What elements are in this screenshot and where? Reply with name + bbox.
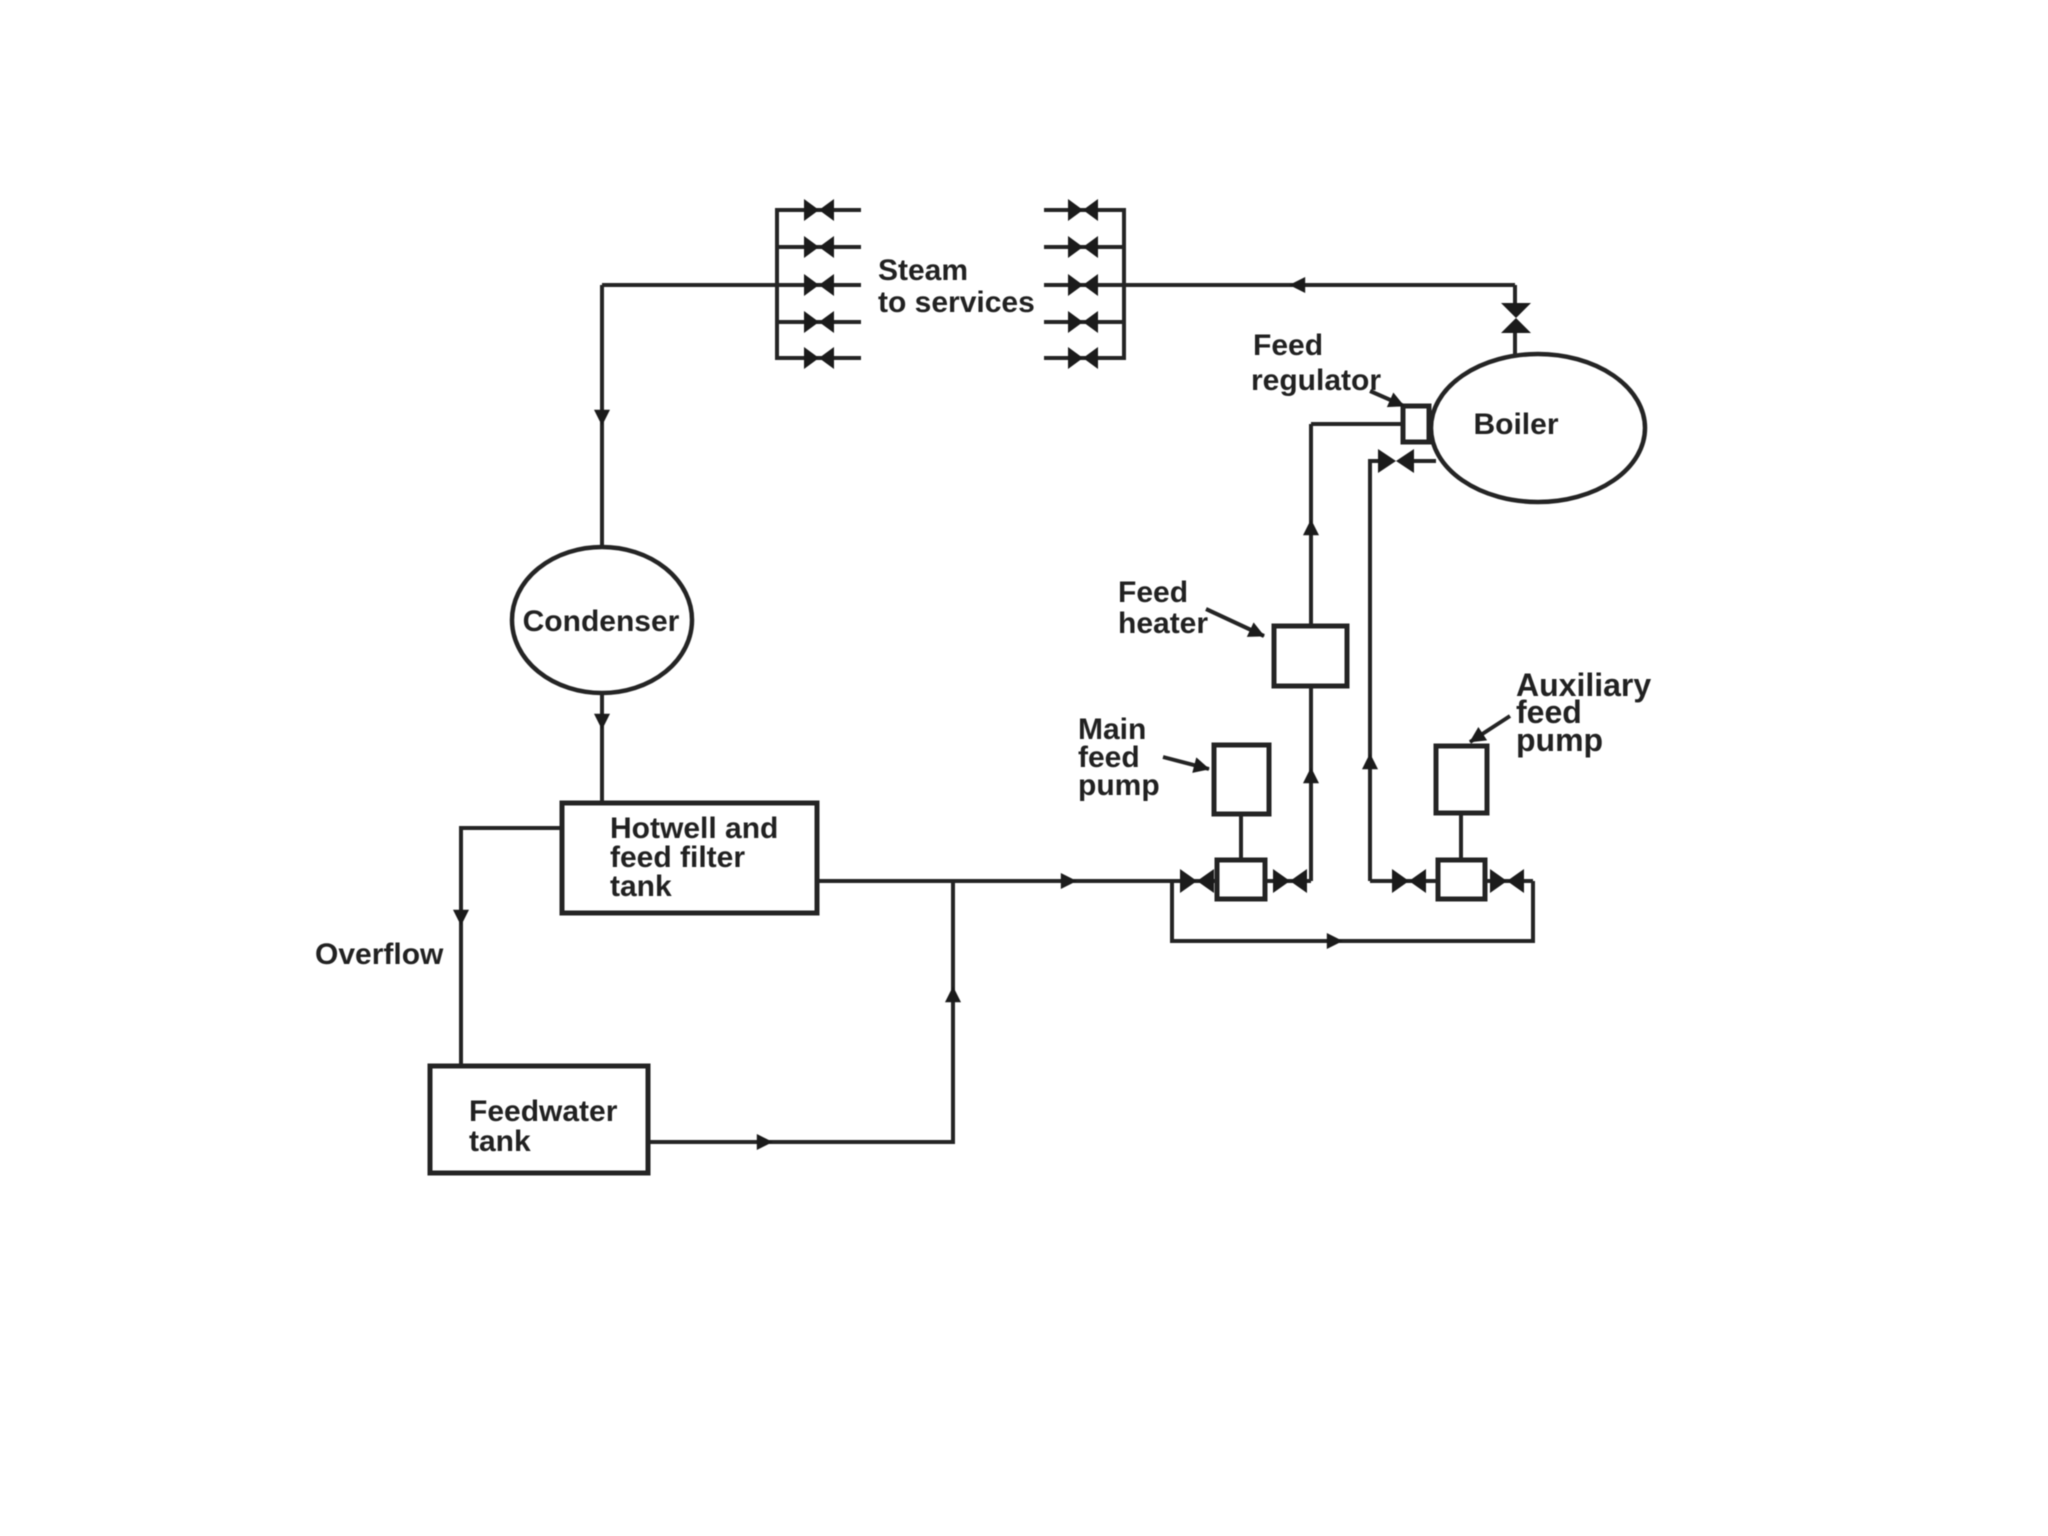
wire: right bank row 2	[1044, 245, 1124, 249]
wire: right bank row 5	[1044, 356, 1124, 360]
wire: left bank row 4	[777, 320, 861, 324]
condenser	[512, 547, 692, 693]
arrow: down into hotwell	[600, 703, 604, 729]
arrow: up below feed heater	[1309, 768, 1313, 794]
arrow: up above feed heater	[1309, 520, 1313, 546]
wire: auxiliary feed riser	[1370, 461, 1380, 881]
boiler stop valve (vertical)	[1501, 303, 1531, 333]
arrow: tank outlet right	[746, 1140, 772, 1144]
svg-text:regulator: regulator	[1251, 364, 1381, 397]
leader arrow: main feed pump label	[1163, 757, 1209, 769]
wire: left bank row 2	[777, 245, 861, 249]
main pump discharge valve	[1273, 869, 1307, 893]
feed regulator box	[1403, 406, 1429, 442]
arrow: steam flow to left	[1290, 283, 1314, 287]
svg-text:Overflow: Overflow	[315, 938, 444, 971]
wire: left bank row 3	[777, 283, 861, 287]
svg-text:Condenser: Condenser	[523, 605, 680, 638]
valve row 3 left bank	[804, 274, 834, 296]
arrow: feed flow right	[1052, 879, 1076, 883]
valve row 3 right bank	[1068, 274, 1098, 296]
main pump suction valve	[1180, 869, 1214, 893]
svg-text:tank: tank	[469, 1125, 531, 1158]
svg-text:tank: tank	[610, 870, 672, 903]
wire: main feed suction line from hotwell	[817, 879, 1311, 883]
wire: right bank row 3	[1044, 283, 1124, 287]
leader arrow: feed regulator label	[1370, 391, 1404, 406]
valve row 4 left bank	[804, 311, 834, 333]
valve row 2 left bank	[804, 236, 834, 258]
wire: left bank row 1	[777, 208, 861, 212]
svg-text:Boiler: Boiler	[1473, 408, 1558, 441]
wire: aux check valve to boiler shell	[1412, 459, 1436, 463]
main pump discharge box	[1217, 860, 1265, 899]
boiler	[1431, 354, 1645, 502]
valve row 2 right bank	[1068, 236, 1098, 258]
wire: into feed regulator	[1311, 422, 1403, 426]
valve row 1 right bank	[1068, 199, 1098, 221]
wire: steam line drop to condenser	[600, 285, 604, 546]
wire: main steam line left segment	[602, 283, 777, 287]
wire: boiler stop valve to boiler shell	[1513, 333, 1517, 356]
valve row 5 right bank	[1068, 347, 1098, 369]
feedwater tank box	[430, 1066, 648, 1173]
svg-text:Feedwater: Feedwater	[469, 1095, 618, 1128]
valve row 4 right bank	[1068, 311, 1098, 333]
wire: overflow line from hotwell	[461, 828, 562, 1066]
aux pump suction valve	[1392, 869, 1426, 893]
node: left valve-bank header bar	[775, 208, 779, 360]
auxiliary feed check valve at boiler	[1378, 449, 1414, 473]
wire: auxiliary feed line	[1370, 879, 1533, 883]
valve row 5 left bank	[804, 347, 834, 369]
node: right valve-bank header bar	[1122, 208, 1126, 360]
aux pump discharge valve	[1490, 869, 1524, 893]
svg-text:Feed: Feed	[1118, 576, 1188, 609]
wire: main steam line right segment from boiler	[1124, 283, 1515, 287]
svg-text:pump: pump	[1516, 722, 1603, 758]
svg-text:heater: heater	[1118, 607, 1208, 640]
feed heater box	[1274, 626, 1347, 686]
hotwell and feed filter tank box	[562, 803, 817, 913]
svg-text:Steam: Steam	[878, 254, 968, 287]
arrow: aux riser up	[1368, 754, 1372, 780]
arrow: overflow down	[459, 899, 463, 925]
wire: condenser to hotwell	[600, 693, 604, 803]
main feed pump box	[1214, 745, 1269, 814]
pump stem: auxiliary feed pump	[1459, 813, 1463, 860]
wire: main feed riser through feed heater	[1309, 424, 1313, 881]
arrow: down into condenser	[600, 401, 604, 425]
wire: left bank row 5	[777, 356, 861, 360]
wire: right bank row 4	[1044, 320, 1124, 324]
pump stem: main feed pump	[1239, 814, 1243, 860]
arrow: bypass right	[1316, 939, 1342, 943]
auxiliary feed pump box	[1436, 746, 1487, 813]
svg-text:to services: to services	[878, 286, 1035, 319]
arrow: riser up	[951, 987, 955, 1013]
valve row 1 left bank	[804, 199, 834, 221]
wire: down from steam line to boiler stop valve	[1513, 285, 1517, 303]
wire: feedwater tank outlet to riser	[648, 881, 953, 1142]
auxiliary pump discharge box	[1438, 860, 1485, 899]
wire: recirculation bypass	[1172, 881, 1533, 941]
wire: right bank row 1	[1044, 208, 1124, 212]
leader arrow: auxiliary feed pump label	[1470, 716, 1510, 742]
svg-text:Feed: Feed	[1253, 329, 1323, 362]
leader arrow: feed heater label	[1206, 609, 1264, 636]
svg-text:pump: pump	[1078, 769, 1160, 802]
